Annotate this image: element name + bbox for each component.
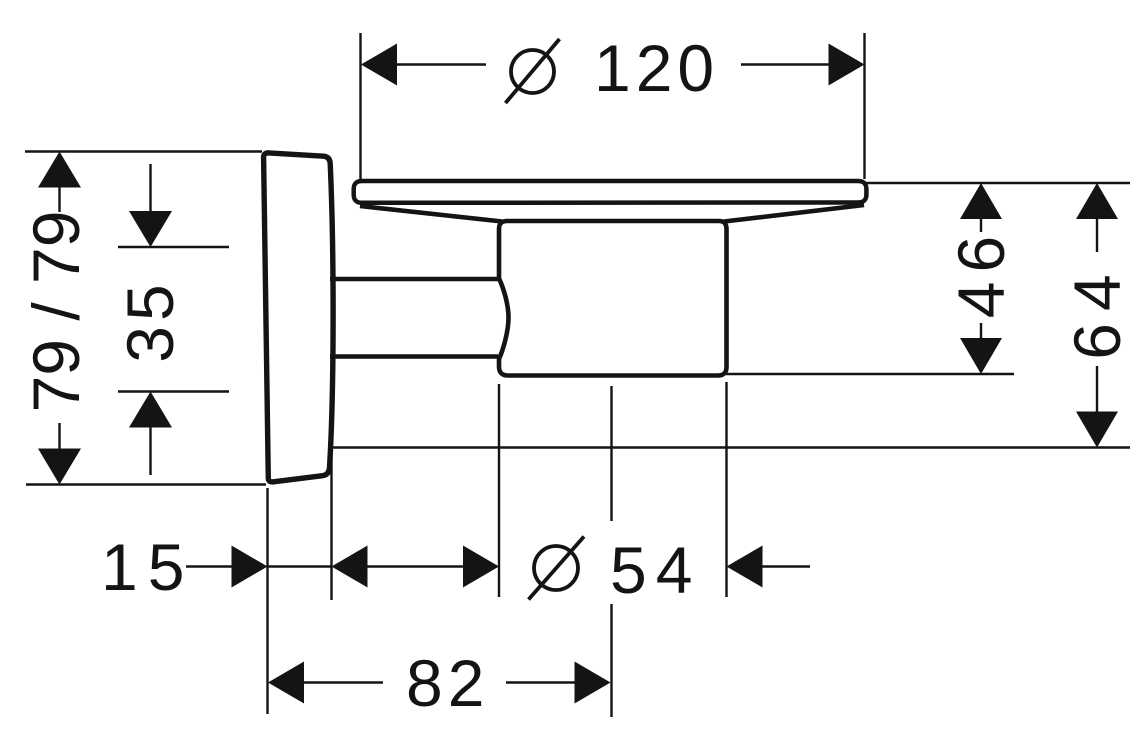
dim 35 tail line bottom: [149, 426, 151, 475]
dim Ø120 line right segment: [741, 63, 830, 65]
dim Ø120 line left segment: [396, 63, 486, 65]
dish underside slope right: [724, 205, 864, 222]
dim 46 arrow up: [960, 183, 1002, 219]
dim 15 middle segment: [268, 565, 332, 567]
dim 46 line upper segment: [980, 218, 982, 232]
dim 35 tail line top: [149, 164, 151, 212]
svg-text:82: 82: [406, 646, 489, 720]
svg-text:46: 46: [944, 227, 1018, 318]
svg-text:64: 64: [1060, 262, 1134, 359]
svg-text:15: 15: [101, 530, 194, 604]
dim 15 arrow left (tip at right extension): [332, 546, 368, 588]
cup centre line lower segment: [610, 604, 612, 717]
wall plate (side view): [264, 153, 334, 482]
dim Ø120 arrow left: [361, 44, 397, 86]
extension line cup left edge: [498, 384, 500, 597]
dim 79/79 arrow down: [38, 449, 81, 485]
dim Ø54 tail line right: [761, 565, 810, 567]
svg-text:79 / 79: 79 / 79: [19, 211, 93, 413]
dim 64 arrow up: [1076, 183, 1118, 219]
dim 79/79 extension line bottom: [26, 483, 266, 485]
dim 35 arrow up (below): [129, 392, 172, 428]
dim Ø120 extension line left: [359, 33, 361, 179]
dim 46 bottom extension line: [726, 373, 1014, 375]
dim 64 bottom extension line: [333, 446, 1130, 448]
dim 79/79 line lower segment: [58, 423, 60, 450]
dim 64 arrow down: [1076, 412, 1118, 448]
dish underside slope left: [360, 206, 502, 222]
dim 82 arrow left: [268, 662, 304, 704]
dim 64 line upper segment: [1096, 218, 1098, 252]
dim 15 tail line left: [186, 565, 233, 567]
svg-text:120: 120: [594, 31, 719, 105]
extension line wall plate left edge: [266, 488, 268, 714]
extension line wall plate right edge: [330, 450, 332, 600]
dim Ø54 arrow right (tip at cup left extension): [463, 546, 499, 588]
svg-text:54: 54: [610, 533, 701, 607]
dim 82 arrow right: [575, 662, 611, 704]
arm top line: [330, 277, 498, 282]
dim 35 extension line bottom: [118, 390, 229, 392]
dim 35 extension line top: [118, 246, 229, 248]
soap dish cup (bowl body): [499, 221, 727, 376]
dish top plate (rim bar): [354, 181, 867, 203]
svg-text:35: 35: [113, 279, 187, 362]
dim 64 line lower segment: [1096, 366, 1098, 412]
dim 46/64 top extension line: [866, 182, 1130, 184]
dim Ø120 diameter symbol: [506, 39, 560, 103]
dim 46 line lower segment: [980, 323, 982, 339]
dim 46 arrow down: [960, 338, 1002, 374]
dim 82 line left segment: [303, 681, 383, 683]
dim Ø54 arrow left (tip at cup right extension): [727, 546, 763, 588]
dim Ø120 extension line right: [863, 33, 865, 179]
dim 82 line right segment: [506, 681, 576, 683]
extension line cup right edge: [725, 382, 727, 597]
dim Ø54 diameter symbol: [529, 537, 585, 600]
dim 79/79 arrow up: [38, 152, 81, 188]
dim 15 arrow right (tip at left extension): [232, 546, 268, 588]
arm bottom line: [330, 354, 498, 359]
dim 79/79 extension line top: [25, 150, 262, 152]
dim 79/79 line upper segment: [58, 186, 60, 212]
dim 35 arrow down (above): [129, 211, 172, 247]
shared tail between 15 and Ø54: [366, 565, 464, 567]
cup centre line upper segment: [610, 386, 612, 521]
dim Ø120 arrow right: [829, 44, 865, 86]
